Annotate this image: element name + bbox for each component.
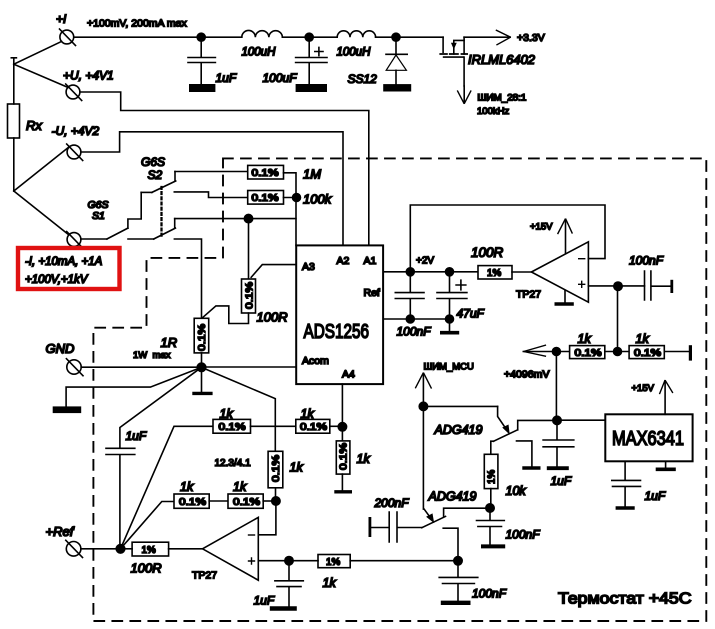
wire: L1 to L2 xyxy=(282,36,337,38)
svg-text:A2: A2 xyxy=(337,255,350,267)
svg-text:ADS1256: ADS1256 xyxy=(304,320,370,343)
capacitor 1uF (MAX bottom) xyxy=(612,461,641,508)
wire: node to MAX6341 xyxy=(557,419,605,421)
node mid row xyxy=(614,348,622,356)
resistor 1k 0.1% row2b xyxy=(228,494,263,508)
svg-text:A4: A4 xyxy=(342,369,355,381)
svg-text:+100V,+1kV: +100V,+1kV xyxy=(25,274,89,286)
resistor 100R 1% (output) xyxy=(132,542,169,556)
capacitor 100nF (bottom) xyxy=(439,561,478,603)
node row2 xyxy=(272,497,280,505)
svg-text:200nF: 200nF xyxy=(374,496,410,510)
node 4096 rail xyxy=(552,348,560,356)
node +Ref xyxy=(116,545,125,554)
svg-text:S1: S1 xyxy=(92,210,105,222)
switch #1 NO post and wire to node xyxy=(518,420,553,429)
switch S1 second NC run to 1R column xyxy=(174,239,201,320)
svg-text:Термостат +45С: Термостат +45С xyxy=(558,591,692,608)
wire: 1% box to op-amp xyxy=(512,271,531,273)
svg-text:0.1%: 0.1% xyxy=(339,443,350,470)
transistor Q1 IRLML6402 xyxy=(440,37,467,86)
wire: box to node xyxy=(121,548,133,550)
plus label xyxy=(579,281,585,287)
capacitor 200nF with input tick xyxy=(369,512,422,542)
minus label xyxy=(249,534,255,536)
switch S2 pole wire xyxy=(141,191,152,193)
supply +15V arrow xyxy=(558,219,572,253)
svg-text:1k: 1k xyxy=(357,452,371,466)
ground tick under star xyxy=(194,371,211,393)
node ref a xyxy=(406,315,414,323)
wire: feedback loop xyxy=(410,205,605,272)
svg-text:100uH: 100uH xyxy=(337,47,372,59)
svg-text:1%: 1% xyxy=(487,268,501,279)
reference MAX6341 xyxy=(605,414,692,461)
resistor Rx xyxy=(8,104,20,138)
svg-text:0.1%: 0.1% xyxy=(252,168,279,179)
svg-text:100uF: 100uF xyxy=(263,71,298,85)
wire: 1M/100k join and drop to A3 corner xyxy=(284,173,297,246)
switch S2 NO post xyxy=(174,172,176,182)
wire row1 to A4 node xyxy=(330,425,343,427)
wire: fan to -U xyxy=(14,147,69,191)
svg-text:1k: 1k xyxy=(578,332,592,346)
wire: -U to A2 column xyxy=(81,132,343,246)
svg-text:ШИМ_MCU: ШИМ_MCU xyxy=(424,362,475,373)
svg-text:Acom: Acom xyxy=(302,355,329,367)
svg-text:1R: 1R xyxy=(161,335,178,350)
switch S1 NO contact post xyxy=(128,192,141,228)
wire row2 to node xyxy=(263,500,276,502)
node 10k bottom xyxy=(486,504,494,512)
svg-text:1k: 1k xyxy=(233,480,247,494)
node plus xyxy=(285,557,293,565)
mechanical linkage dotted xyxy=(160,187,162,238)
minus label xyxy=(579,258,585,260)
resistor 1k 0.1% (a) xyxy=(570,346,605,359)
svg-text:IRLML6402: IRLML6402 xyxy=(468,52,536,67)
op-amp TP27 (bottom) xyxy=(169,517,259,580)
svg-text:1k: 1k xyxy=(220,407,234,421)
svg-text:100nF: 100nF xyxy=(629,254,664,268)
wire: feedback resistor to row2 node xyxy=(275,488,277,501)
svg-text:100nF: 100nF xyxy=(472,587,507,601)
resistor 1k 0.1% row1a xyxy=(213,419,251,433)
wire A4 pin down xyxy=(341,384,343,441)
svg-text:0.1%: 0.1% xyxy=(634,348,661,359)
svg-text:1k: 1k xyxy=(301,407,315,421)
svg-text:A1: A1 xyxy=(364,255,377,267)
dashed thermostat boundary xyxy=(93,158,706,621)
wire row2 middle xyxy=(209,500,228,502)
svg-text:A3: A3 xyxy=(302,261,315,273)
node ref b xyxy=(446,315,454,323)
wire: star diagonal to 1uF xyxy=(120,367,202,448)
wire row1 middle xyxy=(251,425,296,427)
svg-text:1uF: 1uF xyxy=(126,429,147,443)
wire: output node down to divider row xyxy=(617,286,619,351)
svg-text:1k: 1k xyxy=(323,576,337,590)
resistor 1k 0.1% row2a xyxy=(174,494,209,508)
svg-text:+4096mV: +4096mV xyxy=(504,370,550,381)
svg-text:100R: 100R xyxy=(131,561,162,576)
svg-text:0.1%: 0.1% xyxy=(244,282,255,309)
resistor 1k 0.1% (vertical, feedback) xyxy=(268,451,283,488)
capacitor 100uF polarized xyxy=(296,37,327,92)
svg-text:100kHz: 100kHz xyxy=(477,106,509,117)
input stem with tick xyxy=(11,58,16,104)
wire: star diagonal to feedback column xyxy=(202,367,276,451)
terminal -I input xyxy=(67,232,83,249)
svg-text:100R: 100R xyxy=(471,245,504,260)
plus label xyxy=(249,558,255,564)
svg-text:1k: 1k xyxy=(180,480,194,494)
resistor 1k 1% xyxy=(318,555,350,568)
supply +15V arrow xyxy=(660,381,673,415)
svg-text:1k: 1k xyxy=(636,332,650,346)
wire: +Ref to node xyxy=(81,548,121,550)
red callout box xyxy=(18,248,120,289)
svg-text:+2V: +2V xyxy=(416,256,434,267)
svg-text:TP27: TP27 xyxy=(516,289,541,301)
wire: +U to A1 column xyxy=(80,92,369,245)
wire: node up to divider xyxy=(555,352,557,421)
terminal +Ref xyxy=(66,540,83,557)
svg-text:1uF: 1uF xyxy=(551,474,572,488)
wire: control down to switch 2 xyxy=(422,406,424,509)
terminal +U,+4V1 xyxy=(66,84,82,101)
op chip ADS1256 xyxy=(296,245,383,384)
resistor 1k 0.1% (b) xyxy=(629,346,664,359)
resistor 10k 1% (vertical) xyxy=(484,441,498,488)
svg-text:G6S: G6S xyxy=(141,155,165,169)
svg-text:+Ref: +Ref xyxy=(46,524,75,539)
switch ADG419 #2 arm xyxy=(422,516,446,527)
wire: minus input up to row2 node xyxy=(258,501,276,535)
svg-text:1%: 1% xyxy=(326,557,340,568)
resistor 1k 0.1% (vertical, A4) xyxy=(336,441,350,474)
wire: output to 100nF node xyxy=(588,285,644,287)
svg-text:+3.3V: +3.3V xyxy=(517,32,545,44)
capacitor 100nF (output RC) xyxy=(645,271,674,300)
wire: row2 from +Ref node xyxy=(121,502,175,549)
svg-text:10k: 10k xyxy=(506,484,527,498)
node +4096 switch xyxy=(553,416,561,424)
resistor 1M 0.1% xyxy=(248,165,284,179)
wire: S1 NO rail to ADS corner xyxy=(175,218,296,220)
node PWM xyxy=(419,402,427,410)
capacitor 100nF (ref) xyxy=(395,272,424,319)
op-amp TP27 (top) xyxy=(531,242,588,302)
node at D1 xyxy=(392,33,400,41)
svg-text:1W max: 1W max xyxy=(133,350,171,361)
svg-text:100k: 100k xyxy=(303,192,333,207)
wire: fan to S1 terminal xyxy=(14,191,69,235)
svg-text:100uH: 100uH xyxy=(242,47,277,59)
svg-text:GND: GND xyxy=(46,341,75,356)
svg-text:S2: S2 xyxy=(148,168,163,182)
svg-text:0.1%: 0.1% xyxy=(219,422,246,433)
node input rail xyxy=(244,214,252,222)
svg-text:1uF: 1uF xyxy=(645,489,666,503)
svg-text:ШИМ_28:1: ШИМ_28:1 xyxy=(477,93,526,104)
svg-text:SS12: SS12 xyxy=(348,72,378,86)
switch S1 pole wire xyxy=(81,238,107,240)
wire: L2 to MOSFET xyxy=(376,36,444,38)
node 47uF xyxy=(446,268,454,276)
inductor L1 100uH xyxy=(242,30,283,37)
resistor 1R 0.1% (vertical) xyxy=(194,318,209,353)
resistor 100R 0.1% (vertical) xyxy=(242,279,256,313)
wire: control to switch 1 xyxy=(423,405,497,407)
wire: plus node to 1k box xyxy=(289,560,318,562)
switch S2 NC run to 100k resistor xyxy=(174,192,247,198)
chassis ground bar xyxy=(53,406,81,413)
svg-text:Rx: Rx xyxy=(26,118,42,133)
terminal GND xyxy=(66,359,83,376)
switch #1 NC to ground xyxy=(517,441,539,468)
ground tick (MAX gnd pin) xyxy=(658,461,675,469)
capacitor 1uF (at plus input) xyxy=(272,561,303,609)
wire: row1 from +Ref node xyxy=(121,426,214,549)
terminal +I xyxy=(60,29,76,46)
svg-text:0.1%: 0.1% xyxy=(179,497,206,508)
wire: star to Acom xyxy=(205,366,296,368)
svg-text:1k: 1k xyxy=(290,461,304,475)
switch S1 second arm xyxy=(154,228,176,239)
wire: GND to star node xyxy=(81,366,197,368)
svg-text:0.1%: 0.1% xyxy=(271,455,282,482)
wire: fan to +U xyxy=(14,64,68,87)
signal arrow +4096mV xyxy=(523,345,569,356)
svg-text:47uF: 47uF xyxy=(457,307,485,321)
node 1M/100k xyxy=(293,194,301,202)
wire: fan to +I xyxy=(14,41,62,64)
svg-text:TP27: TP27 xyxy=(192,570,217,582)
node A4 xyxy=(338,423,346,431)
node at C2 xyxy=(305,33,313,41)
node star (GND sense) xyxy=(197,363,206,372)
wire between xyxy=(605,351,629,353)
svg-text:0.1%: 0.1% xyxy=(233,497,260,508)
svg-text:ADG419: ADG419 xyxy=(428,490,477,504)
svg-text:0.1%: 0.1% xyxy=(300,422,327,433)
capacitor 1uF (ref filter) xyxy=(106,448,135,545)
wire: plus input to node xyxy=(258,560,289,562)
capacitor 1uF (input) xyxy=(188,37,215,92)
svg-text:100nF: 100nF xyxy=(397,325,432,339)
svg-text:MAX6341: MAX6341 xyxy=(612,428,684,450)
gate PWM down arrow xyxy=(458,86,471,103)
svg-text:0.1%: 0.1% xyxy=(197,324,208,351)
svg-text:+15V: +15V xyxy=(632,383,655,394)
wire: S2 NO to 1M resistor xyxy=(175,171,248,173)
wire: 10k to node xyxy=(490,489,492,508)
wire to tick xyxy=(664,345,692,360)
svg-text:+15V: +15V xyxy=(530,222,553,233)
wire: star to chassis ground xyxy=(66,367,201,406)
wire: 1R to star node xyxy=(201,353,203,367)
switch ADG419 #1 arm xyxy=(493,430,517,442)
svg-text:12.3/4.1: 12.3/4.1 xyxy=(215,458,252,469)
switch S2 arm xyxy=(152,181,176,192)
svg-text:1%: 1% xyxy=(487,470,498,484)
switch #2 NC contact xyxy=(443,528,458,561)
wire: 100R zigzag to 1R top xyxy=(202,306,249,324)
ground tick under A4 resistor xyxy=(336,474,350,492)
svg-text:1M: 1M xyxy=(303,167,321,182)
inductor L2 100uH xyxy=(337,31,375,37)
node output xyxy=(614,282,622,290)
svg-text:0.1%: 0.1% xyxy=(252,193,279,204)
svg-text:1%: 1% xyxy=(142,545,156,556)
svg-text:0.1%: 0.1% xyxy=(575,348,602,359)
svg-text:Ref: Ref xyxy=(364,287,380,299)
diode SS12 xyxy=(383,37,411,91)
control arrow into switch 2 xyxy=(424,509,434,522)
resistor 1k 0.1% row1b xyxy=(296,419,330,433)
wire: Ref pin rail xyxy=(383,318,449,320)
svg-text:100R: 100R xyxy=(257,310,288,325)
terminal -U,+4V2 xyxy=(67,144,83,161)
wire: +I terminal to L1 xyxy=(74,36,242,38)
wire: input rail node down xyxy=(248,219,250,279)
wire: +2V rail xyxy=(383,271,478,273)
svg-text:ADG419: ADG419 xyxy=(434,423,483,437)
control arrow into switch 1 xyxy=(498,406,510,433)
svg-text:-U, +4V2: -U, +4V2 xyxy=(52,124,100,138)
capacitor 100nF (PWM filter) xyxy=(477,508,505,546)
wire and arrow +3.3V xyxy=(464,30,510,44)
svg-text:+I: +I xyxy=(56,12,67,26)
svg-text:-I, +10mA, +1A: -I, +10mA, +1A xyxy=(25,256,103,268)
signal arrow ШИМ_MCU xyxy=(416,373,432,406)
capacitor 47uF polarized xyxy=(437,272,467,319)
switch S1 NC run xyxy=(128,238,154,240)
svg-text:+100mV, 200mA max: +100mV, 200mA max xyxy=(87,18,187,30)
node 100nF xyxy=(406,268,414,276)
svg-text:1uF: 1uF xyxy=(216,71,237,85)
wire: 1k box to switch node xyxy=(350,560,458,562)
svg-text:+U, +4V1: +U, +4V1 xyxy=(63,69,114,83)
ground tick under op-amp xyxy=(556,291,572,305)
switch S1 arm xyxy=(107,228,128,239)
switch S1 second NO post xyxy=(174,219,176,229)
svg-text:1uF: 1uF xyxy=(254,594,275,608)
switch #2 NO contact run xyxy=(444,508,486,516)
resistor 100R 1% (ref buffer) xyxy=(478,266,512,279)
resistor 100k 0.1% xyxy=(248,191,284,205)
svg-text:100nF: 100nF xyxy=(506,528,541,542)
wire: A3 pin to 100R resistor xyxy=(251,265,296,278)
node at C1 xyxy=(197,33,205,41)
wire below Rx xyxy=(13,138,15,191)
node at 100nF xyxy=(454,557,462,565)
ground tick under 47uF xyxy=(442,319,458,333)
capacitor 1uF (at MAX output) xyxy=(543,420,574,468)
